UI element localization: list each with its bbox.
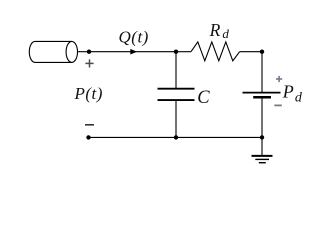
node bottom-left terminal dot xyxy=(86,135,90,139)
svg-text:R: R xyxy=(209,20,221,40)
wire to resistor xyxy=(176,51,191,53)
node top-left terminal dot xyxy=(87,50,91,54)
svg-text:C: C xyxy=(197,88,210,108)
wire cylinder to node xyxy=(78,51,90,53)
plus sign at battery xyxy=(276,76,282,82)
node junction dot top-right xyxy=(260,50,264,54)
node junction dot bottom-right xyxy=(260,135,264,139)
wire capacitor top lead xyxy=(175,52,177,89)
wire capacitor bottom lead xyxy=(175,100,177,137)
arrowhead Q(t) xyxy=(130,49,137,55)
node junction dot top-middle xyxy=(174,50,178,54)
svg-text:Q(t): Q(t) xyxy=(119,28,149,47)
wire top with current direction xyxy=(89,51,176,53)
wire battery bottom lead xyxy=(261,97,263,137)
node junction dot bottom-middle xyxy=(174,135,178,139)
svg-text:d: d xyxy=(222,26,229,41)
wire to ground xyxy=(261,137,263,155)
svg-text:P(t): P(t) xyxy=(74,84,103,103)
wire battery top lead xyxy=(261,52,263,93)
cylinder source body xyxy=(29,41,77,62)
svg-text:d: d xyxy=(295,90,303,105)
minus sign at battery xyxy=(274,104,281,106)
wire bottom return xyxy=(89,136,263,138)
plus sign at source top terminal xyxy=(85,59,93,67)
resistor Rd zigzag xyxy=(191,42,240,61)
svg-text:P: P xyxy=(282,81,294,101)
capacitor C plates xyxy=(158,88,195,90)
ground symbol xyxy=(252,156,273,163)
battery Pd plates xyxy=(243,92,281,94)
minus sign at source bottom terminal xyxy=(85,124,94,126)
wire resistor to node xyxy=(240,51,262,53)
